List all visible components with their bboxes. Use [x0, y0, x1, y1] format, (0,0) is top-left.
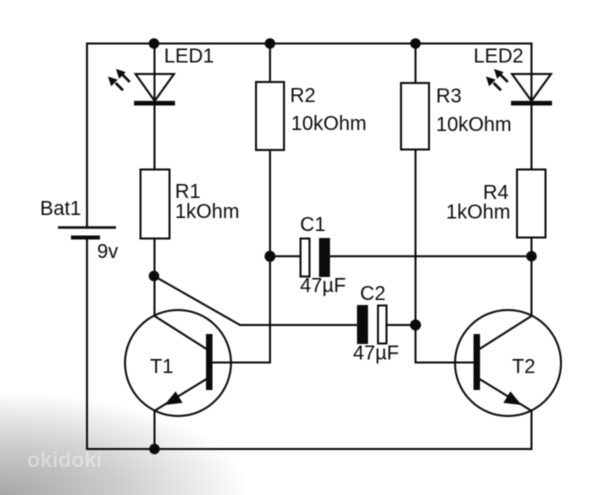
watermark okidoki — [27, 450, 102, 471]
svg-text:10kOhm: 10kOhm — [291, 113, 367, 135]
svg-text:10kOhm: 10kOhm — [436, 114, 512, 136]
svg-text:C1: C1 — [300, 214, 326, 236]
wire: left riser from top rail to battery + plate — [86, 43, 88, 228]
svg-text:LED1: LED1 — [164, 46, 214, 68]
transistor T2 base bar — [474, 334, 481, 390]
wire: R4 bottom lead to T2 collector node — [531, 238, 533, 317]
wire: C2 left lead — [239, 324, 357, 326]
resistor R1 body — [141, 170, 170, 239]
node: top rail / R3 junction — [410, 38, 421, 49]
node: C2 tap on R3 column — [410, 320, 421, 331]
wire: T2 base lead from R3 column — [416, 362, 474, 364]
resistor R3 body — [401, 83, 429, 150]
capacitor C1 positive plate (solid) — [319, 238, 330, 277]
svg-text:47µF: 47µF — [353, 343, 399, 365]
wire: LED2 anode lead from top rail — [531, 43, 533, 104]
wire: T1 base lead to R2/C1 column — [213, 362, 271, 364]
node: T2 collector junction below R4 — [526, 251, 537, 262]
LED1 emission arrow lower — [108, 77, 123, 91]
wire: T2 emitter lead to bottom rail — [531, 410, 533, 450]
battery Bat1 positive plate — [58, 226, 116, 228]
node: T1 emitter on bottom rail — [149, 444, 160, 455]
wire: LED1 cathode to R1 — [154, 105, 156, 170]
LED1 emission arrow upper — [116, 69, 130, 82]
transistor T1 base bar — [206, 334, 213, 390]
transistor T1 emitter stroke — [155, 379, 207, 411]
wire: R1 bottom lead to T1 collector node — [154, 239, 156, 317]
transistor T2 collector stroke — [480, 316, 532, 349]
wire: R3 bottom lead down to T2 base level — [415, 150, 417, 364]
node: T1 collector junction below R1 — [149, 271, 160, 282]
svg-text:Bat1: Bat1 — [40, 198, 81, 220]
svg-text:C2: C2 — [360, 283, 386, 305]
capacitor C1 negative plate (outline) — [301, 239, 310, 277]
LED1 cathode bar — [134, 101, 175, 106]
wire: LED2 cathode to R4 — [531, 105, 533, 170]
node: top rail / R2 junction — [265, 38, 276, 49]
wire: C2 right lead to R3 column — [387, 324, 416, 326]
wire: R3 top lead — [415, 44, 417, 85]
resistor R2 body — [256, 82, 284, 150]
svg-text:T2: T2 — [512, 356, 535, 378]
wire: R2 bottom lead down to T1 base level — [269, 150, 271, 364]
node: top rail / LED1 junction — [149, 38, 160, 49]
node: C1 tap on R2 column — [265, 251, 276, 262]
LED2 emission arrow upper — [494, 69, 508, 82]
LED2 emission arrow lower — [486, 77, 501, 91]
transistor T1 circle — [125, 310, 231, 416]
transistor T2 emitter stroke — [480, 379, 532, 411]
resistor R4 body — [517, 170, 546, 238]
capacitor C2 positive plate (solid) — [357, 305, 368, 344]
LED2 cathode bar — [511, 101, 552, 106]
svg-text:R3: R3 — [436, 86, 462, 108]
transistor T1 collector stroke — [155, 316, 207, 349]
battery Bat1 negative plate — [71, 236, 100, 240]
svg-text:R2: R2 — [290, 85, 316, 107]
transistor T2 emitter arrowhead — [503, 391, 521, 405]
wire: battery negative lead down to bottom rail — [86, 237, 88, 450]
wire: LED1 anode lead from top rail — [154, 44, 156, 104]
wire: top positive rail — [87, 43, 532, 45]
svg-text:47µF: 47µF — [300, 275, 346, 297]
wire: R2 top lead — [269, 44, 271, 84]
capacitor C2 negative plate (outline) — [378, 306, 387, 344]
svg-text:R1: R1 — [175, 181, 201, 203]
svg-text:LED2: LED2 — [474, 46, 524, 68]
wire: T1 emitter lead to bottom rail — [154, 410, 156, 449]
wire: diagonal from T1 collector node toward C2 — [154, 276, 240, 325]
wire: bottom ground rail — [86, 448, 532, 450]
svg-text:T1: T1 — [150, 356, 173, 378]
svg-text:1kOhm: 1kOhm — [175, 201, 239, 223]
wire: C1 right lead to T2 collector node — [330, 255, 532, 257]
transistor T2 circle — [455, 310, 561, 416]
svg-text:1kOhm: 1kOhm — [446, 202, 510, 224]
LED1 diode triangle — [136, 74, 175, 101]
svg-text:9v: 9v — [97, 241, 118, 263]
transistor T1 emitter arrowhead — [165, 391, 183, 405]
LED2 diode triangle — [512, 74, 551, 101]
wire: C1 left lead from R2 column — [270, 255, 300, 257]
